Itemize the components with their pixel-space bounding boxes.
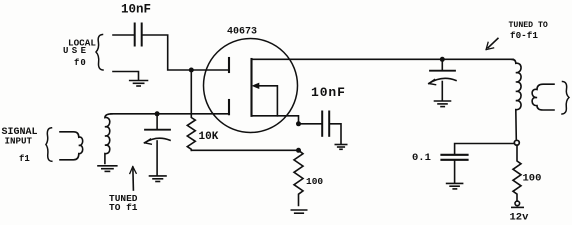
node A junction dot (gate1 / 10K / LO) <box>189 68 194 73</box>
ground (input coil) <box>98 166 117 172</box>
ground (LO return) <box>130 81 148 87</box>
wire: decoupling line to 0.1 cap <box>455 144 515 154</box>
transistor Q1 envelope circle <box>204 39 298 133</box>
variable capacitor VC1 top plate <box>145 129 170 131</box>
ground (source resistor) <box>291 210 306 213</box>
brace for SIGNAL INPUT <box>46 128 52 162</box>
wire: drain lead to output tank <box>252 58 514 60</box>
wire: LOCAL USE bottom lead <box>113 72 139 80</box>
wire: junction to gate 1 <box>191 69 228 71</box>
svg-text:10nF: 10nF <box>121 3 151 17</box>
ground (bypass cap) <box>335 145 346 150</box>
wire: LOCAL USE top lead to capacitor <box>113 34 134 36</box>
brace for output winding <box>562 82 569 115</box>
transistor Q1 source lead <box>252 116 299 124</box>
capacitor C1 10nF (LO coupling) <box>135 24 142 46</box>
wire: VC2 to ground <box>441 82 443 101</box>
ground (VC1) <box>150 176 167 182</box>
transistor Q1 gate 2 bar <box>228 100 230 114</box>
node C junction dot (source/bypass) <box>296 121 301 126</box>
svg-text:10nF: 10nF <box>311 85 346 100</box>
label TUNED TO f0-f1 <box>509 21 548 41</box>
wire: gate 2 line (coil top to gate 2) <box>111 113 229 115</box>
wire: bypass cap to ground <box>330 124 341 144</box>
label TUNED TO f1 <box>109 193 138 213</box>
svg-text:USE: USE <box>63 46 89 56</box>
transistor Q1 channel bar <box>250 59 252 116</box>
variable capacitor VC1 (tuned to f1) stub <box>156 114 158 129</box>
svg-text:0.1: 0.1 <box>412 152 431 164</box>
transformer T2 secondary winding <box>532 84 554 110</box>
svg-text:40673: 40673 <box>227 27 257 38</box>
wire: 0.1 cap to ground <box>454 161 456 183</box>
svg-text:100: 100 <box>306 176 323 187</box>
ground (0.1 cap) <box>447 183 463 189</box>
capacitor C2 10nF (source bypass) <box>322 112 329 136</box>
svg-text:TO f1: TO f1 <box>109 202 138 213</box>
transistor Q1 gate 1 bar <box>228 58 230 72</box>
transformer T2 primary coil (output tank) <box>512 59 521 140</box>
variable capacitor VC2 curved plate with arrow <box>429 78 456 84</box>
arrow pointing to VC1 (tuned to f1) <box>130 167 136 191</box>
resistor R3 100 (supply dropping) <box>513 145 521 201</box>
transformer T1 primary winding (input) <box>60 132 83 160</box>
wire: capacitor to gate 1 junction <box>143 35 192 70</box>
variable capacitor VC2 top plate <box>430 70 455 72</box>
resistor R2 100 (source) <box>294 150 303 205</box>
node F ring junction (tank / decoupling) <box>514 140 519 145</box>
variable capacitor VC1 curved plate with arrow <box>145 138 171 144</box>
ground (VC2) <box>435 101 451 107</box>
terminal 12v feedthrough <box>512 201 523 207</box>
capacitor C3 0.1 (decoupling) <box>442 155 468 160</box>
label SIGNAL INPUT f1 <box>2 127 38 164</box>
svg-text:INPUT: INPUT <box>5 136 33 147</box>
variable capacitor VC2 (tuned to f0-f1) stub <box>441 59 443 70</box>
svg-text:12v: 12v <box>510 212 530 224</box>
arrow pointing to drain tank <box>486 38 498 49</box>
wire: bias line 10K bottom to source <box>191 149 298 151</box>
node D junction dot (source/bias/R) <box>296 148 301 153</box>
wire: source junction to bypass cap <box>299 123 322 125</box>
resistor R1 10K (gate 1 bias) <box>187 70 195 150</box>
transistor Q1 substrate arrow <box>253 83 278 115</box>
brace for LOCAL USE input <box>96 35 103 71</box>
svg-text:f0: f0 <box>74 58 87 68</box>
svg-text:100: 100 <box>523 173 542 185</box>
svg-text:f0-f1: f0-f1 <box>510 30 538 41</box>
node E junction dot (drain tank) <box>440 57 445 62</box>
svg-text:10K: 10K <box>199 131 219 143</box>
node B junction dot (tuned input) <box>155 111 160 116</box>
label LOCAL USE f0 <box>63 37 96 68</box>
wire: VC1 to ground <box>156 141 158 175</box>
svg-text:f1: f1 <box>19 154 30 164</box>
svg-text:TUNED TO: TUNED TO <box>509 21 548 30</box>
transformer T1 secondary coil <box>105 114 112 164</box>
